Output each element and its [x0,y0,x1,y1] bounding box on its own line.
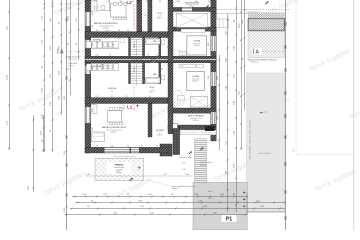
svg-text:1,10: 1,10 [124,96,127,98]
svg-text:45: 45 [156,54,158,56]
svg-text:90: 90 [118,30,120,32]
svg-text:-0,0: -0,0 [293,149,295,152]
svg-text:L2: L2 [127,0,133,5]
svg-text:NAPPALI KONYHA ÉTKEZŐ: NAPPALI KONYHA ÉTKEZŐ [94,22,119,25]
svg-text:2,4: 2,4 [167,18,169,20]
svg-text:45: 45 [195,66,197,68]
svg-text:1,48: 1,48 [225,86,227,90]
svg-text:KAD: KAD [153,40,158,43]
svg-text:90: 90 [242,58,244,60]
svg-text:-0,02: -0,02 [208,198,212,200]
svg-text:2,40: 2,40 [217,76,219,80]
svg-text:8,4: 8,4 [111,90,113,92]
svg-text:1,80: 1,80 [95,55,98,57]
svg-text:2,40: 2,40 [92,109,94,112]
svg-text:KÖZL.: KÖZL. [149,86,155,89]
svg-text:90: 90 [181,127,183,129]
svg-text:45: 45 [141,145,143,147]
svg-text:1,40: 1,40 [256,200,260,202]
svg-text:1,90: 1,90 [113,212,117,214]
svg-text:1,40: 1,40 [159,101,162,103]
svg-text:4,80: 4,80 [159,15,162,17]
svg-text:1,05: 1,05 [103,194,107,196]
svg-text:kávé padló: kávé padló [192,78,199,80]
svg-text:2,40: 2,40 [110,145,113,147]
svg-text:-0,02: -0,02 [182,169,186,171]
svg-text:45: 45 [127,30,129,32]
svg-text:1,9: 1,9 [145,14,147,16]
svg-text:90: 90 [234,20,236,22]
svg-text:90: 90 [159,1,161,3]
svg-text:A: A [60,50,64,56]
svg-text:3,40: 3,40 [225,58,227,62]
svg-text:90: 90 [181,66,183,68]
svg-text:1,40: 1,40 [194,127,197,129]
svg-text:20: 20 [91,200,93,202]
svg-text:±0,00 (≡101,45): ±0,00 (≡101,45) [258,153,271,155]
svg-text:90: 90 [109,55,111,57]
svg-text:5,40: 5,40 [203,206,207,208]
svg-text:3,40: 3,40 [185,174,189,176]
svg-text:90: 90 [127,145,129,147]
svg-text:KÖZL.: KÖZL. [157,98,163,101]
svg-text:21,60 m²: 21,60 m² [116,171,123,174]
svg-text:A: A [256,50,260,56]
svg-text:1,05: 1,05 [234,74,236,78]
svg-text:1,40: 1,40 [86,174,90,176]
svg-text:1,35: 1,35 [106,1,109,3]
svg-text:3,40: 3,40 [151,89,154,91]
svg-text:1,48: 1,48 [234,131,236,135]
svg-text:15,40: 15,40 [7,74,9,80]
svg-text:45: 45 [208,1,210,3]
svg-text:2,40: 2,40 [225,31,227,35]
svg-text:45: 45 [208,10,210,12]
svg-text:1,90: 1,90 [82,194,86,196]
svg-text:1,35: 1,35 [92,67,94,70]
svg-text:1,40: 1,40 [194,1,197,3]
svg-text:2,15: 2,15 [163,174,167,176]
svg-text:P1: P1 [226,217,232,223]
svg-text:5,00: 5,00 [260,206,264,208]
svg-text:ZUH./HÁZ: ZUH./HÁZ [93,39,103,42]
svg-text:3,40: 3,40 [198,200,202,202]
svg-text:90: 90 [96,145,98,147]
svg-text:90: 90 [156,145,158,147]
svg-text:2,88: 2,88 [234,46,236,50]
svg-text:földszintes: földszintes [251,61,259,64]
svg-text:1,40: 1,40 [225,171,227,175]
svg-text:90: 90 [149,96,151,98]
svg-text:3,10: 3,10 [208,76,210,79]
svg-text:0,00: 0,00 [213,212,217,214]
svg-text:1,35: 1,35 [105,30,108,32]
svg-text:KONYHA: KONYHA [108,87,117,90]
svg-text:1,80: 1,80 [92,12,94,15]
svg-text:20: 20 [96,34,98,36]
svg-text:épített kerítés: épített kerítés [179,156,193,159]
svg-text:2,40: 2,40 [242,20,244,24]
svg-text:L1: L1 [127,105,133,110]
svg-text:7,05: 7,05 [140,206,144,208]
svg-text:20: 20 [118,34,120,36]
svg-text:TERASZ: TERASZ [115,163,124,166]
svg-text:KÖZL.: KÖZL. [151,59,157,62]
svg-text:14,52: 14,52 [239,23,241,28]
svg-text:1,05: 1,05 [178,10,181,12]
svg-text:KAD: KAD [153,73,158,76]
svg-text:0,00: 0,00 [182,163,185,165]
svg-text:90: 90 [171,194,173,196]
svg-text:ELŐKÉR: ELŐKÉR [156,129,164,132]
svg-text:5,58: 5,58 [138,200,142,202]
svg-text:2,88: 2,88 [176,1,179,3]
svg-text:1,05: 1,05 [145,1,148,3]
svg-text:8,15: 8,15 [150,212,154,214]
svg-text:kávé padló: kávé padló [193,43,200,45]
svg-text:90: 90 [120,1,122,3]
svg-text:SZOBA: SZOBA [194,40,201,43]
svg-text:KÖZL.: KÖZL. [157,12,163,15]
svg-text:2,88: 2,88 [194,10,197,12]
svg-text:±0,00: ±0,00 [208,191,212,193]
svg-text:1,20: 1,20 [92,128,94,131]
svg-text:NAPPALI KONYHA ÉTKEZŐ: NAPPALI KONYHA ÉTKEZŐ [102,126,127,129]
svg-text:3,40: 3,40 [234,101,236,105]
svg-text:90: 90 [127,194,129,196]
svg-text:1,40: 1,40 [220,194,224,196]
svg-text:udvar, zöldfelület – telekhatá: udvar, zöldfelület – telekhatár mentén k… [249,119,252,160]
svg-text:45: 45 [132,1,134,3]
svg-text:1,05: 1,05 [225,141,227,145]
svg-text:2,25: 2,25 [208,110,210,113]
svg-text:1,35: 1,35 [95,96,98,98]
svg-text:1,35: 1,35 [92,43,94,46]
svg-text:1,05: 1,05 [148,194,152,196]
svg-text:2,88: 2,88 [194,194,198,196]
svg-text:3,40: 3,40 [234,164,236,168]
svg-text:1,05: 1,05 [217,116,219,120]
svg-text:SZOBA: SZOBA [192,75,199,78]
svg-text:1,05: 1,05 [239,91,241,95]
svg-text:NEGYV MELAKÁT: NEGYV MELAKÁT [188,115,205,118]
svg-text:90: 90 [96,30,98,32]
svg-text:90: 90 [162,68,164,70]
svg-text:90: 90 [147,54,149,56]
svg-text:45: 45 [206,127,208,129]
svg-text:20: 20 [87,206,89,208]
svg-text:90: 90 [92,25,94,27]
svg-text:3,10: 3,10 [208,43,210,46]
svg-text:(fagyálló): (fagyálló) [200,164,207,166]
svg-text:90: 90 [234,193,236,195]
svg-text:90: 90 [95,1,97,3]
svg-text:90: 90 [167,46,169,48]
svg-text:90: 90 [111,96,113,98]
